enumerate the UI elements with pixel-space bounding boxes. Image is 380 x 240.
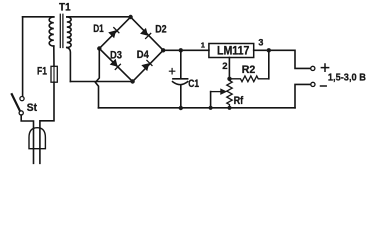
regulator U1 LM117 box: [209, 44, 254, 58]
minus sign output: [321, 85, 327, 87]
switch St blade: [12, 94, 20, 110]
transformer T1 primary winding: [49, 17, 54, 46]
wire top left horizontal: [23, 16, 54, 18]
resistor R2: [230, 76, 269, 82]
plug body: [29, 128, 45, 149]
node bridge right: [161, 48, 165, 52]
plus sign output: [321, 64, 328, 71]
wire regulator pin 2: [228, 58, 230, 79]
bridge edge bottom-right: [133, 50, 164, 81]
node C1 top junction: [179, 48, 183, 52]
bridge edge top-left: [99, 17, 130, 49]
wire left vertical to switch: [22, 17, 24, 97]
wire bottom rail: [99, 107, 296, 109]
terminal plus: [311, 66, 315, 70]
node C1 rail junction: [179, 106, 183, 110]
svg-text:LM117: LM117: [217, 43, 250, 57]
svg-text:D2: D2: [155, 23, 166, 35]
node output junction: [267, 48, 271, 52]
bridge edge top-right: [131, 17, 164, 50]
bridge edge left-bottom: [99, 49, 132, 82]
capacitor C1: [180, 50, 182, 78]
node Rf rail junction: [227, 106, 231, 110]
svg-text:3: 3: [258, 37, 263, 47]
node adjust junction: [227, 77, 231, 81]
wire regulator output: [254, 50, 311, 68]
wire wiper to bottom rail: [210, 92, 212, 108]
potentiometer Rf wiper arrow: [211, 91, 221, 93]
wire minus branch: [295, 84, 311, 107]
svg-text:St: St: [27, 102, 38, 114]
node bridge left: [97, 46, 101, 50]
potentiometer Rf resistive element: [227, 79, 232, 108]
wire fuse to plug: [40, 82, 54, 163]
switch St upper contact: [20, 97, 24, 101]
wire bridge right node to regulator: [163, 49, 209, 51]
transformer T1 secondary winding: [67, 17, 71, 48]
node bridge bottom: [130, 79, 134, 83]
svg-text:D1: D1: [93, 23, 104, 35]
svg-text:C1: C1: [188, 78, 199, 90]
wire bridge left node down with crossover jog: [95, 49, 99, 108]
diode D1: [109, 28, 119, 38]
svg-text:1: 1: [201, 40, 205, 49]
svg-text:D4: D4: [137, 49, 150, 61]
wire secondary top to bridge: [67, 16, 131, 18]
svg-text:T1: T1: [59, 1, 71, 13]
diode D3: [110, 59, 120, 69]
node wiper rail junction: [209, 106, 213, 110]
terminal minus: [311, 82, 315, 86]
svg-text:F1: F1: [37, 66, 47, 78]
svg-text:R2: R2: [242, 64, 256, 76]
svg-text:1,5-3,0 В: 1,5-3,0 В: [328, 72, 366, 84]
wire switch to plug: [21, 115, 33, 163]
svg-text:Rf: Rf: [234, 95, 244, 107]
svg-text:2: 2: [222, 61, 227, 72]
wire secondary bottom lead: [67, 48, 71, 82]
switch St lower contact: [19, 111, 23, 115]
node bridge top: [128, 15, 132, 19]
svg-text:D3: D3: [110, 49, 122, 61]
fuse F1: [53, 66, 55, 82]
capacitor C1 plus sign: [169, 69, 174, 74]
diode D2: [141, 29, 151, 39]
wire transformer to bridge bottom node: [70, 81, 132, 83]
wire output node down to R2: [268, 50, 270, 79]
wire primary bottom to fuse: [53, 46, 55, 66]
diode D4: [142, 60, 152, 70]
transformer T1 core: [60, 14, 63, 47]
